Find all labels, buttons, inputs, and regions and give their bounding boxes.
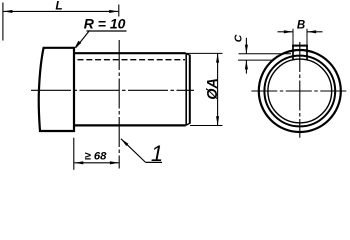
diameter A bottom arrow — [216, 116, 219, 125]
svg-text:L: L — [55, 0, 62, 12]
cylinder bottom edge — [73, 124, 186, 126]
diameter A bottom extension line — [190, 125, 223, 127]
R=10 underline — [87, 30, 127, 32]
chamfer diagonal top — [186, 53, 190, 55]
dimension L line — [3, 10, 118, 12]
dim B right line — [307, 31, 322, 33]
dim B left arrow — [284, 30, 293, 33]
horizontal centerline left view — [31, 89, 194, 91]
circle vertical centerline — [299, 42, 301, 138]
R=10 leader — [76, 31, 90, 48]
dim B left line — [278, 31, 293, 33]
dim B left extension line — [292, 29, 294, 46]
cylinder top edge — [73, 52, 186, 54]
outer circle — [259, 50, 341, 132]
dimension L extension line — [2, 3, 4, 41]
centerline upper stub — [118, 5, 120, 17]
dimension L right arrow — [109, 10, 118, 13]
item 1 shelf — [146, 161, 162, 163]
item 1 leader arrow — [120, 138, 129, 146]
keyway left wall — [292, 46, 294, 61]
dim C lower extension line — [238, 59, 273, 61]
dim C upper extension line — [239, 53, 292, 55]
hidden keyway line — [78, 59, 186, 61]
chamfer diagonal bottom — [186, 123, 190, 125]
flange outline — [39, 48, 74, 131]
dim C lower line — [245, 60, 247, 73]
dim C upper line — [245, 38, 247, 54]
svg-text:C: C — [233, 34, 245, 42]
svg-text:1: 1 — [151, 141, 163, 166]
R=10 arrow — [72, 41, 81, 51]
keyway top line — [292, 45, 308, 47]
dim C lower arrow — [245, 60, 248, 69]
dim >=68 line — [74, 162, 119, 164]
diameter A top extension line — [187, 52, 223, 54]
chamfer line — [185, 53, 187, 125]
dim >=68 left arrow — [74, 161, 83, 164]
middle circle — [264, 56, 335, 127]
dim C upper arrow — [245, 45, 248, 54]
diameter A dimension line — [217, 54, 219, 126]
dim >=68 left extension line — [73, 138, 75, 170]
dimension L left arrow — [3, 10, 12, 13]
diameter A top arrow — [216, 54, 219, 63]
circle horizontal centerline — [251, 90, 346, 92]
vertical centerline left view — [118, 40, 120, 169]
keyway right wall — [306, 46, 308, 61]
item 1 leader line — [121, 139, 146, 163]
svg-text:B: B — [297, 20, 305, 32]
dim B right extension line — [306, 29, 308, 46]
dim >=68 right arrow — [110, 161, 119, 164]
svg-text:≥ 68: ≥ 68 — [85, 151, 108, 163]
end face — [189, 55, 191, 124]
inner circle — [268, 59, 332, 123]
dim B right arrow — [307, 30, 316, 33]
svg-text:R = 10: R = 10 — [84, 16, 126, 32]
svg-text:ØA: ØA — [205, 78, 221, 100]
